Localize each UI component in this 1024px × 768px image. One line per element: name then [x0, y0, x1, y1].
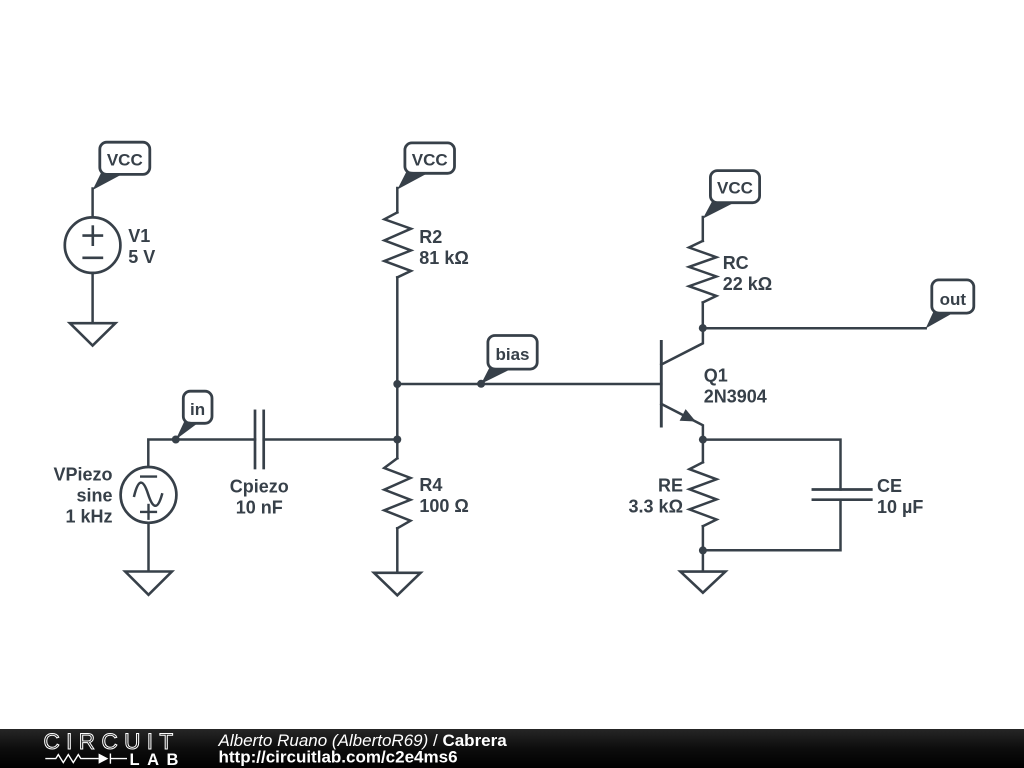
wire out row [703, 327, 926, 330]
label R2 81 kΩ [419, 227, 468, 268]
power flag VCC (RC branch) [703, 171, 760, 219]
label Cpiezo 10 nF [230, 477, 289, 518]
svg-text:81 kΩ: 81 kΩ [419, 248, 468, 268]
resistor R2 [384, 212, 411, 277]
label VPiezo sine 1 kHz [53, 465, 112, 527]
label RE 3.3 kΩ [629, 475, 683, 516]
capacitor Cpiezo [255, 411, 264, 468]
capacitor CE [813, 490, 871, 500]
wire VCC to R2 [396, 188, 399, 212]
voltage source V1 [65, 217, 121, 273]
svg-text:10 µF: 10 µF [877, 497, 923, 517]
ground (R4) [374, 573, 421, 596]
svg-text:bias: bias [495, 345, 529, 364]
label R4 100 Ω [419, 475, 468, 516]
logo squiggle wire [45, 754, 127, 764]
footer bar [0, 729, 1024, 768]
svg-text:out: out [940, 290, 967, 309]
wire Cpiezo to R4 node [264, 438, 398, 441]
power flag VCC (V1 branch) [93, 142, 150, 190]
resistor RE [689, 462, 716, 526]
resistor RC [689, 241, 716, 303]
label Q1 2N3904 [704, 365, 767, 406]
node dot in [172, 436, 180, 444]
svg-text:100 Ω: 100 Ω [419, 496, 468, 516]
svg-text:LAB: LAB [130, 751, 186, 768]
svg-text:Cpiezo: Cpiezo [230, 477, 289, 497]
label V1 5 V [128, 226, 155, 267]
svg-text:VCC: VCC [412, 150, 448, 169]
svg-text:RC: RC [723, 253, 749, 273]
wire emitter to RE [702, 440, 705, 463]
svg-text:V1: V1 [128, 226, 150, 246]
svg-text:R2: R2 [419, 227, 442, 247]
logo diode triangle [99, 754, 109, 764]
wire R2 to R4 [396, 277, 399, 458]
ground (V1) [70, 323, 116, 345]
node dot bias junction [393, 380, 401, 388]
svg-text:22 kΩ: 22 kΩ [723, 274, 772, 294]
power flag VCC (R2 branch) [397, 143, 454, 190]
svg-text:sine: sine [76, 486, 112, 506]
wire V1 to ground [91, 273, 94, 323]
svg-text:R4: R4 [419, 475, 442, 495]
source VPiezo [121, 467, 177, 523]
label CE 10 µF [877, 476, 923, 517]
wire CE bottom to RE bottom [703, 500, 841, 551]
net flag in [176, 391, 212, 439]
wire bias row [397, 383, 661, 386]
node dot collector [699, 324, 707, 332]
wire VCC to V1 [91, 189, 94, 218]
svg-text:CE: CE [877, 476, 902, 496]
svg-text:10 nF: 10 nF [236, 498, 283, 518]
wire RC to collector node [702, 303, 705, 329]
svg-text:1 kHz: 1 kHz [65, 507, 112, 527]
wire in row [148, 440, 255, 468]
ground (RE) [680, 572, 725, 593]
net flag out [926, 280, 974, 329]
node dot bias flag [477, 380, 485, 388]
svg-text:VCC: VCC [717, 179, 753, 198]
node dot RE bottom [699, 546, 707, 554]
label RC 22 kΩ [723, 253, 772, 294]
svg-text:VCC: VCC [107, 150, 143, 169]
svg-text:3.3 kΩ: 3.3 kΩ [629, 497, 683, 517]
wire emitter to CE top [703, 440, 841, 490]
ground (VPiezo) [125, 572, 172, 595]
node dot cap junction [393, 436, 401, 444]
svg-text:2N3904: 2N3904 [704, 386, 767, 406]
wire to ground (RE) [702, 550, 705, 571]
wire R4 to ground [396, 528, 399, 572]
transistor Q1 [661, 328, 703, 440]
svg-text:5 V: 5 V [128, 247, 155, 267]
wire VPiezo to ground [147, 523, 150, 572]
wire VCC to RC [702, 217, 705, 241]
net flag bias [481, 336, 537, 384]
svg-text:http://circuitlab.com/c2e4ms6: http://circuitlab.com/c2e4ms6 [219, 747, 458, 766]
svg-text:RE: RE [658, 475, 683, 495]
node dot emitter [699, 436, 707, 444]
svg-text:Q1: Q1 [704, 365, 728, 385]
wire RE to bottom node [702, 526, 705, 550]
svg-text:in: in [190, 400, 205, 419]
resistor R4 [384, 458, 410, 528]
svg-text:VPiezo: VPiezo [53, 465, 112, 485]
